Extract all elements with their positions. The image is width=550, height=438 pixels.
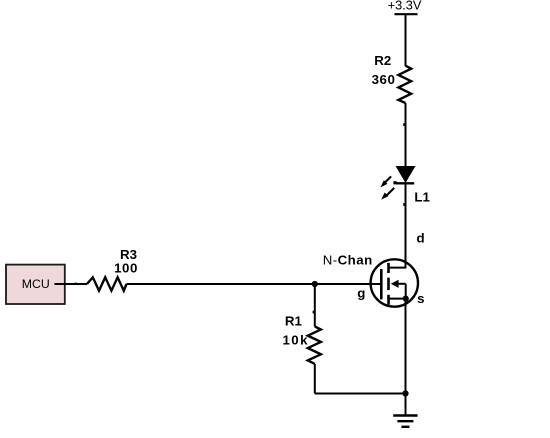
wire: R2 to LED L1 [405,103,407,167]
svg-text:10k: 10k [283,333,309,348]
junction node ground net [402,390,408,396]
pin tick on drain wire [403,203,405,206]
wire: R1 to bottom rail [314,364,316,394]
pin tick on rail wire [403,123,405,126]
pin tick on MCU wire [74,283,77,285]
svg-text:R1: R1 [285,314,303,329]
transistor Q1 N-channel MOSFET [371,259,418,306]
wire: R3 to gate node and Q1 gate [127,283,382,285]
wire: Q1 source down to ground [405,299,407,416]
svg-text:MCU: MCU [22,277,50,291]
resistor R3 [87,277,127,290]
power symbol +3.3V [388,0,422,14]
wire: gate node down to R1 [314,284,316,327]
wire: MCU pin to R3 [66,283,87,285]
svg-text:360: 360 [372,72,396,87]
svg-text:R2: R2 [374,53,391,68]
wire: +3.3V rail to R2 [405,14,407,66]
svg-text:s: s [417,291,424,306]
svg-text:+3.3V: +3.3V [388,0,422,13]
svg-text:d: d [417,230,425,245]
junction node gate net [312,281,318,287]
svg-text:100: 100 [114,261,138,276]
wire: L1 cathode to Q1 drain [405,183,407,268]
wire: bottom horizontal to ground node [315,393,406,395]
resistor R2 [398,66,411,103]
svg-text:L1: L1 [414,190,430,205]
pin tick on R1 wire [313,311,315,314]
svg-text:g: g [357,286,365,301]
svg-text:N-Chan: N-Chan [323,252,373,267]
component MCU box [6,265,66,304]
resistor R1 [308,327,321,364]
ground [393,416,417,427]
LED L1 [380,167,414,200]
